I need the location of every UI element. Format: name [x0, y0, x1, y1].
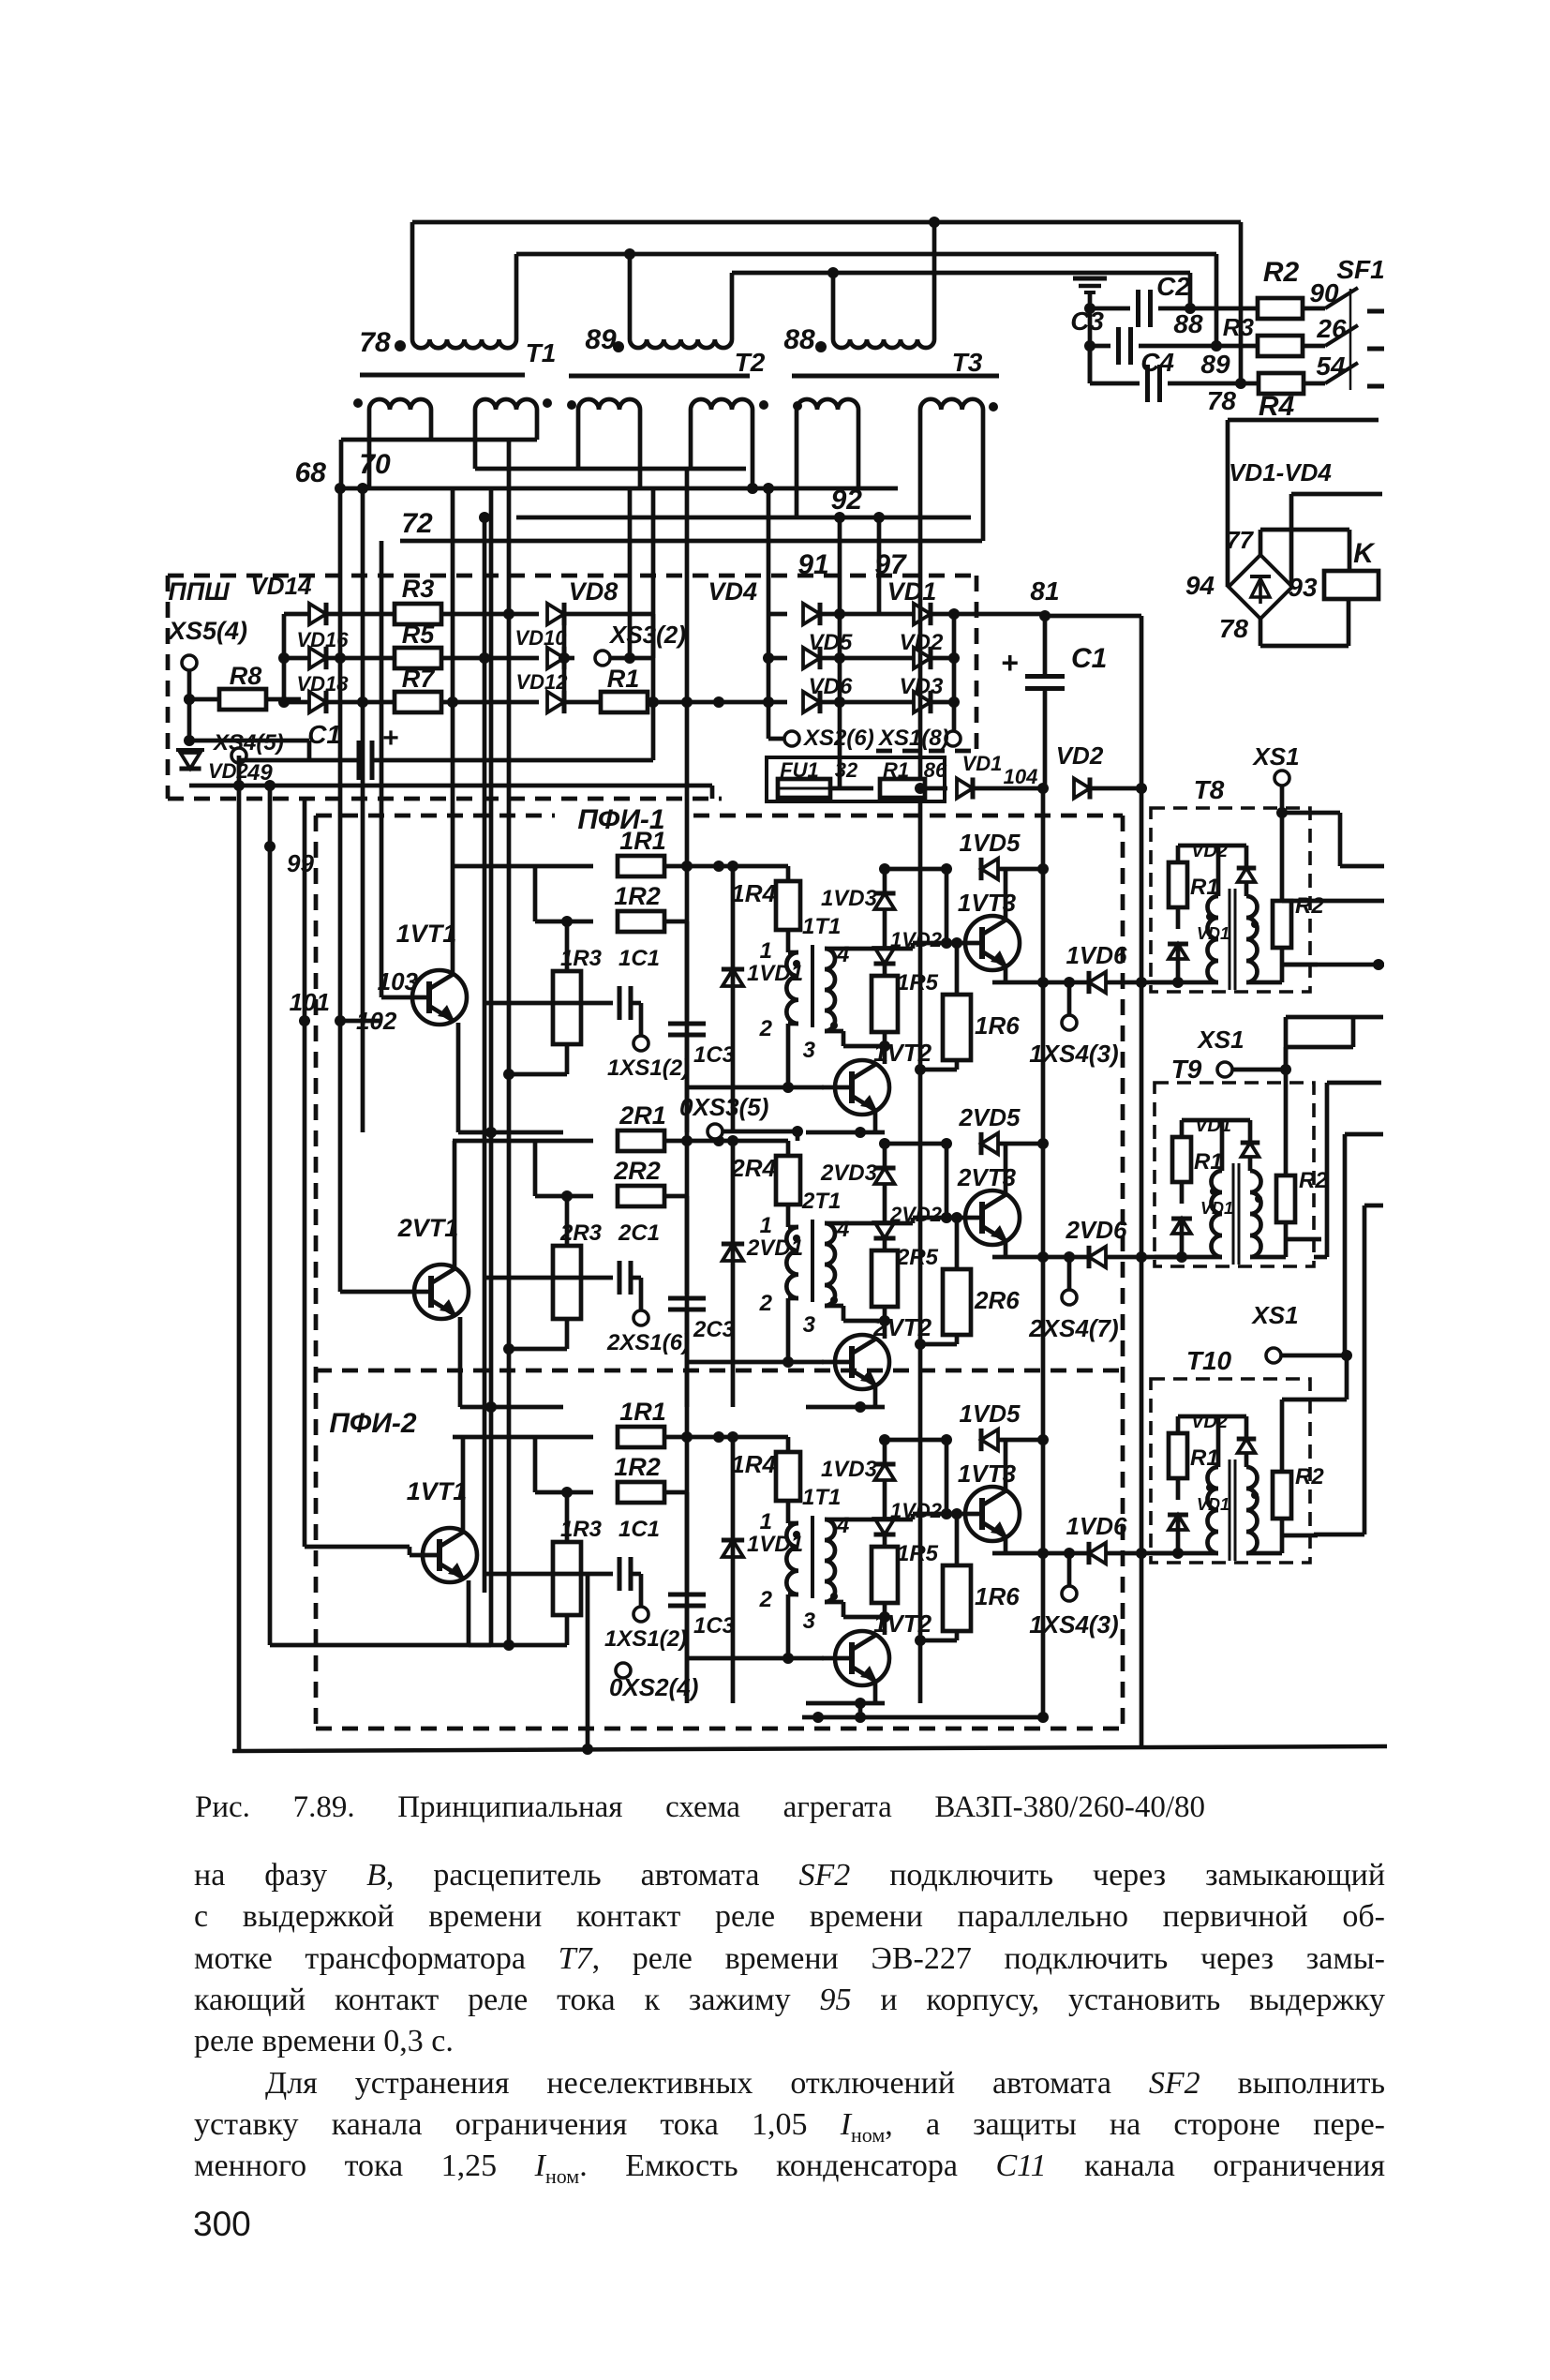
- svg-text:1T1: 1T1: [802, 914, 841, 939]
- svg-text:99: 99: [287, 849, 314, 877]
- svg-text:T3: T3: [952, 348, 983, 377]
- svg-text:2: 2: [759, 1587, 773, 1612]
- svg-text:1R2: 1R2: [614, 882, 661, 910]
- svg-text:4: 4: [836, 1217, 849, 1242]
- svg-text:VD10: VD10: [514, 626, 567, 650]
- svg-text:2VT1: 2VT1: [397, 1214, 459, 1242]
- svg-text:1: 1: [760, 1509, 772, 1534]
- svg-text:+: +: [382, 723, 399, 754]
- svg-text:XS5(4): XS5(4): [167, 617, 247, 645]
- svg-text:1R4: 1R4: [731, 879, 776, 907]
- svg-text:93: 93: [1288, 573, 1318, 602]
- svg-text:0XS3(5): 0XS3(5): [679, 1093, 768, 1121]
- svg-text:4: 4: [836, 1513, 849, 1538]
- svg-text:1C1: 1C1: [619, 1517, 660, 1542]
- svg-text:SF1: SF1: [1336, 255, 1384, 284]
- svg-text:1R1: 1R1: [619, 1398, 666, 1426]
- svg-text:3: 3: [803, 1038, 816, 1063]
- svg-text:XS1: XS1: [1251, 742, 1299, 771]
- svg-text:ПФИ-2: ПФИ-2: [329, 1408, 417, 1439]
- svg-text:92: 92: [831, 485, 863, 516]
- svg-text:81: 81: [1030, 576, 1059, 606]
- svg-text:R1: R1: [607, 665, 640, 693]
- svg-text:1R3: 1R3: [560, 1517, 603, 1542]
- svg-text:C3: C3: [1070, 307, 1104, 336]
- svg-text:1C3: 1C3: [693, 1613, 736, 1639]
- svg-text:VD2: VD2: [1191, 1412, 1228, 1432]
- svg-text:102: 102: [356, 1007, 397, 1035]
- svg-text:104: 104: [1004, 765, 1038, 788]
- svg-text:C4: C4: [1140, 348, 1174, 377]
- svg-text:1R6: 1R6: [975, 1011, 1020, 1040]
- svg-text:32: 32: [835, 758, 858, 782]
- svg-text:VD1: VD1: [887, 577, 937, 606]
- svg-text:2: 2: [759, 1016, 773, 1041]
- svg-text:VD1-VD4: VD1-VD4: [1229, 458, 1332, 486]
- svg-text:1VT2: 1VT2: [873, 1609, 932, 1638]
- svg-text:2R2: 2R2: [613, 1157, 661, 1185]
- svg-text:T1: T1: [526, 338, 557, 367]
- svg-text:2C3: 2C3: [693, 1317, 736, 1342]
- svg-text:1XS1(2): 1XS1(2): [607, 1055, 690, 1081]
- svg-text:VD4: VD4: [708, 577, 757, 606]
- svg-text:94: 94: [1185, 571, 1215, 600]
- svg-text:1VD2: 1VD2: [890, 1499, 943, 1522]
- svg-text:1C1: 1C1: [619, 946, 660, 971]
- svg-text:1VT2: 1VT2: [873, 1039, 932, 1067]
- svg-text:77: 77: [1226, 526, 1254, 554]
- svg-text:VD2: VD2: [1056, 741, 1104, 770]
- svg-text:1C3: 1C3: [693, 1042, 736, 1068]
- svg-text:1VD5: 1VD5: [959, 829, 1021, 857]
- svg-text:VD1: VD1: [1195, 1115, 1231, 1136]
- svg-text:R2: R2: [1295, 1464, 1324, 1489]
- svg-text:101: 101: [290, 988, 330, 1016]
- svg-text:2R5: 2R5: [896, 1245, 939, 1270]
- svg-text:72: 72: [401, 508, 433, 539]
- svg-text:C1: C1: [1071, 643, 1107, 674]
- svg-text:XS2(6): XS2(6): [802, 726, 874, 751]
- svg-text:2R3: 2R3: [559, 1220, 603, 1246]
- svg-text:R5: R5: [402, 621, 435, 649]
- svg-text:2R4: 2R4: [730, 1154, 776, 1182]
- svg-text:R2: R2: [1263, 257, 1300, 288]
- svg-text:R2: R2: [1295, 893, 1324, 919]
- svg-text:C1: C1: [307, 720, 341, 749]
- svg-text:VD12: VD12: [515, 670, 568, 694]
- svg-text:VD2: VD2: [900, 630, 944, 655]
- svg-text:78: 78: [1219, 614, 1249, 643]
- svg-text:R3: R3: [402, 575, 435, 603]
- svg-text:C2: C2: [1156, 272, 1190, 301]
- svg-text:T10: T10: [1186, 1346, 1232, 1375]
- svg-text:1VD3: 1VD3: [821, 886, 878, 911]
- svg-text:88: 88: [783, 324, 815, 355]
- svg-text:1VD2: 1VD2: [890, 928, 943, 951]
- svg-text:XS4(5): XS4(5): [212, 730, 284, 756]
- svg-text:VD6: VD6: [809, 674, 853, 699]
- svg-text:2VD3: 2VD3: [820, 1160, 878, 1186]
- svg-text:1VD5: 1VD5: [959, 1400, 1021, 1428]
- svg-text:2VD6: 2VD6: [1065, 1216, 1127, 1244]
- svg-text:XS1(8): XS1(8): [877, 726, 949, 751]
- svg-text:1T1: 1T1: [802, 1485, 841, 1510]
- svg-text:ППШ: ППШ: [168, 577, 230, 606]
- svg-text:2VD2: 2VD2: [889, 1203, 943, 1226]
- svg-text:26: 26: [1316, 314, 1347, 343]
- svg-text:1R4: 1R4: [731, 1450, 776, 1478]
- svg-text:1R1: 1R1: [619, 827, 666, 855]
- svg-text:2T1: 2T1: [801, 1189, 841, 1214]
- svg-text:K: K: [1353, 538, 1376, 569]
- svg-text:4: 4: [836, 942, 849, 967]
- svg-text:1VT1: 1VT1: [407, 1477, 468, 1505]
- svg-text:1R6: 1R6: [975, 1582, 1020, 1610]
- svg-text:2R1: 2R1: [619, 1101, 666, 1130]
- svg-text:2C1: 2C1: [618, 1220, 660, 1246]
- svg-text:2XS1(6): 2XS1(6): [606, 1330, 690, 1355]
- svg-text:2R6: 2R6: [974, 1286, 1020, 1314]
- svg-text:2: 2: [759, 1291, 773, 1316]
- svg-text:XS3(2): XS3(2): [608, 621, 686, 649]
- svg-text:VD14: VD14: [250, 572, 312, 600]
- svg-text:R1: R1: [883, 758, 909, 782]
- svg-text:VD16: VD16: [296, 628, 349, 651]
- svg-text:89: 89: [1200, 350, 1230, 379]
- svg-text:R3: R3: [1223, 313, 1255, 341]
- svg-text:2VT2: 2VT2: [872, 1313, 932, 1341]
- svg-text:3: 3: [803, 1609, 816, 1634]
- svg-text:1: 1: [760, 1213, 772, 1238]
- svg-text:T8: T8: [1194, 775, 1225, 804]
- svg-text:89: 89: [585, 324, 617, 355]
- svg-text:1XS1(2): 1XS1(2): [604, 1626, 687, 1652]
- svg-text:T9: T9: [1171, 1055, 1202, 1084]
- svg-text:86: 86: [924, 758, 947, 782]
- svg-text:68: 68: [295, 457, 327, 488]
- svg-text:FU1: FU1: [780, 758, 819, 782]
- svg-text:R8: R8: [230, 662, 262, 690]
- svg-text:T2: T2: [735, 348, 766, 377]
- svg-text:88: 88: [1173, 309, 1203, 338]
- svg-text:VD18: VD18: [296, 672, 349, 696]
- svg-text:VD5: VD5: [809, 630, 853, 655]
- svg-text:103: 103: [378, 967, 419, 995]
- svg-text:54: 54: [1316, 352, 1346, 381]
- svg-text:XS1: XS1: [1250, 1301, 1298, 1329]
- svg-text:VD8: VD8: [569, 577, 619, 606]
- svg-text:2VD5: 2VD5: [958, 1103, 1021, 1131]
- svg-text:78: 78: [359, 327, 391, 358]
- svg-text:70: 70: [359, 449, 391, 480]
- svg-text:1R5: 1R5: [897, 1541, 939, 1566]
- svg-text:R4: R4: [1259, 391, 1295, 422]
- svg-text:1: 1: [760, 938, 772, 964]
- svg-text:1VD6: 1VD6: [1066, 941, 1127, 969]
- svg-text:1VD6: 1VD6: [1066, 1512, 1127, 1540]
- svg-text:3: 3: [803, 1312, 816, 1338]
- svg-text:78: 78: [1207, 386, 1237, 415]
- svg-text:1VD3: 1VD3: [821, 1457, 878, 1482]
- svg-text:VD1: VD1: [962, 752, 1003, 775]
- svg-text:1VT1: 1VT1: [396, 920, 457, 948]
- svg-text:XS1: XS1: [1196, 1025, 1244, 1054]
- svg-text:R2: R2: [1299, 1168, 1328, 1193]
- svg-text:1R5: 1R5: [897, 970, 939, 995]
- svg-text:R7: R7: [402, 665, 436, 693]
- svg-text:1R3: 1R3: [560, 946, 603, 971]
- svg-text:1R2: 1R2: [614, 1453, 661, 1481]
- svg-text:VD3: VD3: [900, 674, 944, 699]
- svg-text:VD2: VD2: [1191, 841, 1228, 861]
- svg-text:+: +: [1001, 646, 1019, 680]
